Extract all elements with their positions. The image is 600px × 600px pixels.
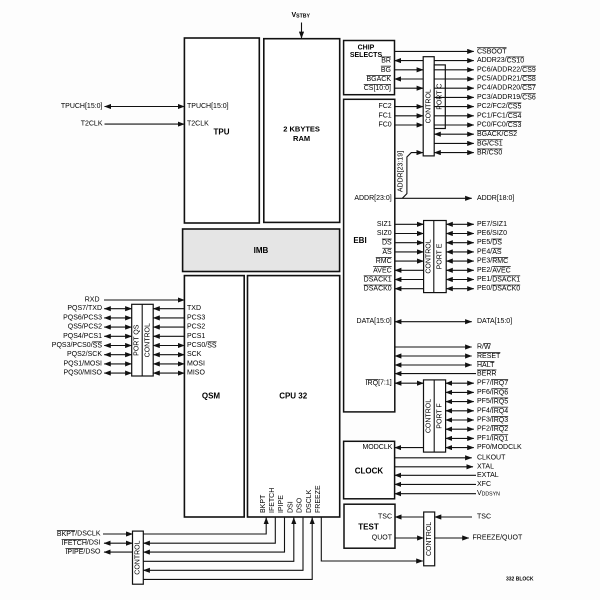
wire MODCLK — [395, 447, 424, 449]
svg-text:AVEC: AVEC — [373, 267, 392, 274]
wire XTAL — [395, 466, 473, 468]
wire PF7 out — [446, 382, 474, 384]
svg-text:PC4/ADDR20/CS7: PC4/ADDR20/CS7 — [477, 85, 536, 92]
svg-text:FC1: FC1 — [378, 112, 391, 119]
wire BERR in — [395, 373, 476, 375]
wire PQS3 left — [104, 345, 132, 347]
svg-text:XFC: XFC — [477, 481, 491, 488]
wire IPIPE net — [143, 518, 284, 553]
wire T2CLK — [105, 123, 185, 125]
svg-text:RXD: RXD — [85, 297, 100, 304]
svg-text:PF6/IRQ6: PF6/IRQ6 — [477, 389, 508, 396]
wire QUOT internal — [395, 537, 424, 539]
wire CS[10:0] — [395, 87, 424, 89]
wire HALT out — [395, 364, 472, 366]
svg-text:PQS3/PCS0/SS: PQS3/PCS0/SS — [52, 342, 103, 349]
svg-text:QSM: QSM — [202, 391, 221, 400]
svg-text:IFETCH: IFETCH — [269, 488, 276, 513]
svg-text:CLKOUT: CLKOUT — [477, 454, 506, 461]
wire DSO net — [143, 518, 303, 571]
svg-text:BKPT/DSCLK: BKPT/DSCLK — [57, 531, 101, 538]
svg-text:PC6/ADDR22/CS9: PC6/ADDR22/CS9 — [477, 66, 536, 73]
wire R/W out — [395, 346, 472, 348]
control/port E box — [424, 221, 447, 293]
wire PF6 out — [446, 391, 474, 393]
svg-text:CONTROL: CONTROL — [425, 89, 432, 123]
svg-text:SIZ0: SIZ0 — [377, 230, 392, 237]
wire FREEZE net — [321, 517, 423, 561]
svg-text:HALT: HALT — [477, 362, 495, 369]
svg-text:DSI: DSI — [288, 501, 295, 513]
svg-text:TPUCH[15:0]: TPUCH[15:0] — [187, 103, 229, 110]
svg-text:DSCLK: DSCLK — [306, 489, 313, 513]
svg-text:TSC: TSC — [378, 514, 392, 521]
wire port C out row 5 — [434, 106, 474, 108]
wire FC2 — [395, 106, 423, 108]
svg-text:PORT F: PORT F — [437, 403, 444, 428]
wire IPIPE/DSO out — [104, 551, 133, 553]
svg-text:ADDR[23:0]: ADDR[23:0] — [354, 195, 391, 202]
svg-text:CONTROL: CONTROL — [425, 239, 432, 273]
svg-text:PORT QS: PORT QS — [134, 324, 141, 356]
svg-text:PF0/MODCLK: PF0/MODCLK — [477, 444, 522, 451]
svg-text:RAM: RAM — [293, 134, 310, 143]
svg-text:BGACK/CS2: BGACK/CS2 — [477, 131, 517, 138]
control box (debug) — [133, 531, 144, 584]
svg-text:PF5/IRQ5: PF5/IRQ5 — [477, 398, 508, 405]
svg-text:T2CLK: T2CLK — [81, 121, 103, 128]
svg-text:CONTROL: CONTROL — [144, 323, 151, 357]
svg-text:PC3/ADDR19/CS6: PC3/ADDR19/CS6 — [477, 94, 536, 101]
svg-text:RMC: RMC — [376, 258, 392, 265]
svg-text:PC0/FC0/CS3: PC0/FC0/CS3 — [477, 122, 521, 129]
wire PE2 out — [446, 269, 474, 271]
svg-text:EXTAL: EXTAL — [477, 472, 499, 479]
wire PE1 out — [446, 279, 474, 281]
wire XFC — [395, 483, 476, 485]
wire FC1 — [395, 115, 423, 117]
svg-text:DATA[15:0]: DATA[15:0] — [477, 318, 512, 325]
wire PF2 out — [446, 428, 474, 430]
wire FREEZE/QUOT out — [435, 537, 469, 539]
svg-text:BG/CS1: BG/CS1 — [477, 140, 503, 147]
svg-text:332 BLOCK: 332 BLOCK — [506, 576, 534, 582]
svg-text:FC2: FC2 — [378, 103, 391, 110]
wire PQS0 left — [104, 372, 132, 374]
svg-text:MOSI: MOSI — [187, 360, 205, 367]
svg-text:PE2/AVEC: PE2/AVEC — [477, 267, 511, 274]
svg-text:TSC: TSC — [477, 514, 491, 521]
svg-text:2 KBYTES: 2 KBYTES — [283, 125, 320, 134]
wire QSM row 7 right — [153, 372, 184, 374]
svg-text:PQS1/MOSI: PQS1/MOSI — [63, 360, 102, 367]
wire VSTBY supply — [301, 23, 303, 39]
svg-text:RESET: RESET — [477, 353, 501, 360]
wire BR — [395, 60, 424, 62]
wire PQS1 left — [104, 363, 132, 365]
wire QSM row 0 right — [153, 308, 184, 310]
wire QSM row 6 right — [153, 363, 184, 365]
wire ADDR[23:0] out — [395, 197, 472, 199]
svg-text:MISO: MISO — [187, 370, 205, 377]
block EBI — [344, 99, 395, 412]
wire port C out row 6 — [434, 115, 474, 117]
wire BGACK — [395, 78, 424, 80]
wire BKPT/DSCLK in — [103, 533, 133, 535]
svg-text:PF1/IRQ1: PF1/IRQ1 — [477, 435, 508, 442]
wire DSACK0 to EBI — [395, 288, 424, 290]
wire EXTAL — [395, 474, 476, 476]
svg-text:AS: AS — [382, 248, 392, 255]
wire PF5 out — [446, 401, 474, 403]
svg-text:PE5/DS: PE5/DS — [477, 239, 502, 246]
wire TSC internal — [395, 516, 424, 518]
svg-text:PQS2/SCK: PQS2/SCK — [67, 351, 102, 358]
svg-text:XTAL: XTAL — [477, 463, 494, 470]
svg-text:BGACK: BGACK — [366, 76, 391, 83]
svg-text:PE4/AS: PE4/AS — [477, 248, 502, 255]
wire AVEC to EBI — [395, 269, 424, 271]
svg-text:CS[10:0]: CS[10:0] — [364, 85, 391, 92]
svg-text:BKPT: BKPT — [260, 494, 267, 513]
svg-text:PE7/SIZ1: PE7/SIZ1 — [477, 221, 507, 228]
wire PQS6 left — [104, 317, 132, 319]
svg-text:IMB: IMB — [254, 246, 269, 255]
wire IRQ[7:1] — [395, 382, 424, 384]
svg-text:IPIPE: IPIPE — [278, 495, 285, 513]
wire ADDR[23:19] branch — [402, 153, 423, 199]
wire SIZ1 to control — [395, 223, 424, 225]
block CLOCK — [344, 441, 395, 499]
svg-text:MODCLK: MODCLK — [362, 444, 392, 451]
svg-text:PE1/DSACK1: PE1/DSACK1 — [477, 276, 520, 283]
wire SIZ0 to control — [395, 233, 424, 235]
svg-text:PCS2: PCS2 — [187, 324, 205, 331]
svg-text:PF2/IRQ2: PF2/IRQ2 — [477, 426, 508, 433]
svg-text:PC5/ADDR21/CS8: PC5/ADDR21/CS8 — [477, 76, 536, 83]
wire QSM row 4 right — [153, 345, 184, 347]
svg-text:PE3/RMC: PE3/RMC — [477, 258, 508, 265]
divider port QS/control — [141, 304, 143, 376]
wire PE3 out — [446, 260, 474, 262]
svg-text:PCS1: PCS1 — [187, 333, 205, 340]
svg-text:DS: DS — [382, 239, 392, 246]
svg-text:PCS0/SS: PCS0/SS — [187, 342, 217, 349]
wire IFETCH net — [143, 518, 275, 544]
wire QSM row 5 right — [153, 354, 184, 356]
svg-text:CLOCK: CLOCK — [355, 466, 384, 475]
svg-text:ADDR[23:19]: ADDR[23:19] — [397, 151, 404, 192]
wire DS to control — [395, 242, 424, 244]
block CHIP SELECTS — [344, 41, 395, 95]
wire BR/CS0 — [434, 152, 474, 154]
svg-text:PCS3: PCS3 — [187, 314, 205, 321]
wire PQS7 left — [104, 308, 132, 310]
svg-text:QUOT: QUOT — [372, 535, 393, 542]
svg-text:BR: BR — [381, 57, 391, 64]
svg-text:TPUCH[15:0]: TPUCH[15:0] — [61, 103, 103, 110]
wire FC0 — [395, 124, 423, 126]
svg-text:IRQ[7:1]: IRQ[7:1] — [366, 380, 392, 387]
wire BGACK/CS2 — [434, 133, 474, 135]
wire PE5 out — [446, 242, 474, 244]
wire port C out row 1 — [434, 69, 474, 71]
svg-text:BG: BG — [381, 66, 391, 73]
block TPU — [184, 38, 259, 223]
svg-text:BR/CS0: BR/CS0 — [477, 149, 502, 156]
svg-text:CPU 32: CPU 32 — [279, 391, 308, 400]
svg-text:T2CLK: T2CLK — [187, 121, 209, 128]
wire RESET out — [395, 355, 472, 357]
svg-text:ADDR23/CS10: ADDR23/CS10 — [477, 57, 524, 64]
divider control/port F — [433, 380, 435, 452]
port QS/control box — [132, 304, 154, 376]
wire port C out row 7 — [434, 124, 474, 126]
svg-text:PF4/IRQ4: PF4/IRQ4 — [477, 407, 508, 414]
wire PQS2 left — [104, 354, 132, 356]
svg-text:PORT C: PORT C — [436, 84, 443, 110]
wire PE0 out — [446, 288, 474, 290]
svg-text:PQS0/MISO: PQS0/MISO — [63, 370, 102, 377]
bus IMB — [183, 229, 340, 272]
wire DSI net — [143, 518, 293, 562]
svg-text:CONTROL: CONTROL — [426, 399, 433, 433]
svg-text:TEST: TEST — [358, 523, 379, 532]
wire AS to control — [395, 251, 424, 253]
wire PQS5 left — [104, 326, 132, 328]
wire PE7 out — [446, 223, 474, 225]
svg-text:PQS6/PCS3: PQS6/PCS3 — [63, 314, 102, 321]
svg-text:VDDSYN: VDDSYN — [477, 490, 500, 497]
wire DSACK1 to EBI — [395, 279, 424, 281]
svg-text:PQS4/PCS1: PQS4/PCS1 — [63, 333, 102, 340]
wire RMC to control — [395, 260, 424, 262]
svg-text:BERR: BERR — [477, 370, 496, 377]
svg-text:VSTBY: VSTBY — [292, 12, 311, 19]
wire PF1 out — [446, 437, 474, 439]
svg-text:IFETCH/DSI: IFETCH/DSI — [62, 540, 101, 547]
svg-text:IPIPE/DSO: IPIPE/DSO — [65, 549, 101, 556]
svg-text:PC2/FC2/CS5: PC2/FC2/CS5 — [477, 103, 521, 110]
wire VDDSYN — [395, 493, 476, 495]
wire TPUCH[15:0] — [105, 106, 185, 108]
svg-text:PORT E: PORT E — [437, 243, 444, 269]
wire port C out row 0 — [434, 60, 474, 62]
wire CSBOOT — [395, 50, 474, 52]
svg-text:FREEZE: FREEZE — [315, 485, 322, 513]
svg-text:R/W: R/W — [477, 344, 491, 351]
wire DSCLK net — [143, 518, 312, 580]
svg-text:TXD: TXD — [187, 305, 201, 312]
svg-text:CHIP: CHIP — [358, 44, 375, 51]
wire DATA[15:0] out — [395, 321, 472, 323]
wire BG/CS1 — [434, 142, 474, 144]
block QSM — [184, 276, 244, 517]
wire IFETCH/DSI io — [104, 542, 133, 544]
svg-text:CSBOOT: CSBOOT — [477, 48, 507, 55]
svg-text:ADDR[18:0]: ADDR[18:0] — [477, 195, 514, 202]
svg-text:DATA[15:0]: DATA[15:0] — [357, 318, 392, 325]
wire port C out row 3 — [434, 87, 474, 89]
wire PE6 out — [446, 233, 474, 235]
wire PF3 out — [446, 419, 474, 421]
wire CLKOUT — [395, 457, 472, 459]
svg-text:CONTROL: CONTROL — [426, 522, 433, 556]
svg-text:SIZ1: SIZ1 — [377, 221, 392, 228]
wire QSM row 3 right — [153, 335, 184, 337]
wire QSM row 1 right — [153, 317, 184, 319]
svg-text:CONTROL: CONTROL — [135, 540, 142, 574]
wire TSC external — [435, 516, 472, 518]
port C box — [434, 65, 445, 129]
wire BKPT net — [143, 518, 266, 534]
wire QSM row 2 right — [153, 326, 184, 328]
wire PQS4 left — [104, 335, 132, 337]
svg-text:SCK: SCK — [187, 351, 202, 358]
control/port F box — [424, 380, 446, 452]
svg-text:PF7/IRQ7: PF7/IRQ7 — [477, 380, 508, 387]
divider control/port E — [433, 221, 435, 293]
svg-text:PE0/DSACK0: PE0/DSACK0 — [477, 285, 520, 292]
block TEST — [344, 504, 395, 548]
wire PE4 out — [446, 251, 474, 253]
svg-text:DSO: DSO — [297, 497, 304, 513]
svg-text:QS5/PCS2: QS5/PCS2 — [68, 324, 102, 331]
svg-text:FREEZE/QUOT: FREEZE/QUOT — [473, 535, 524, 542]
control box (test) — [424, 512, 435, 566]
wire PF4 out — [446, 410, 474, 412]
block RAM — [264, 39, 340, 223]
wire PF0 out — [446, 447, 474, 449]
svg-text:PE6/SIZ0: PE6/SIZ0 — [477, 230, 507, 237]
wire port C out row 4 — [434, 96, 474, 98]
svg-text:DSACK1: DSACK1 — [364, 276, 392, 283]
svg-text:PF3/IRQ3: PF3/IRQ3 — [477, 417, 508, 424]
svg-text:TPU: TPU — [214, 128, 230, 137]
wire port C out row 2 — [434, 78, 474, 80]
svg-text:FC0: FC0 — [378, 122, 391, 129]
wire BG — [395, 69, 424, 71]
svg-text:PQS7/TXD: PQS7/TXD — [67, 305, 102, 312]
wire RXD — [104, 299, 184, 301]
svg-text:SELECTS: SELECTS — [350, 52, 383, 59]
block CPU32 — [248, 276, 340, 517]
control box (port C) — [423, 57, 434, 156]
svg-text:EBI: EBI — [353, 236, 366, 245]
svg-text:DSACK0: DSACK0 — [364, 285, 392, 292]
svg-text:PC1/FC1/CS4: PC1/FC1/CS4 — [477, 112, 521, 119]
